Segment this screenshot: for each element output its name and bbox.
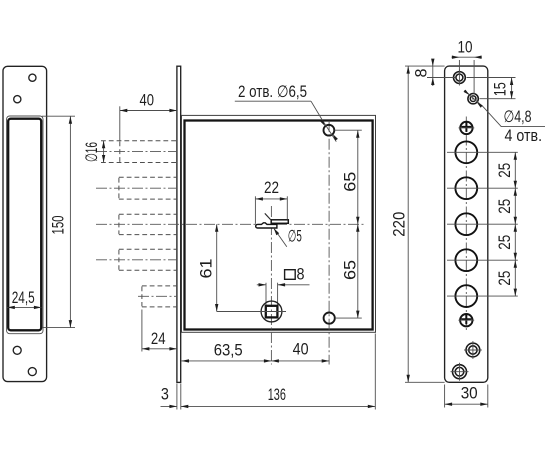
phillips screw bottom: [458, 314, 474, 326]
dimension 40 (bottom): [271, 341, 329, 363]
centerline hole 4: [96, 259, 177, 261]
vertical centerline of key holes: [328, 121, 330, 365]
phillips screw top: [459, 122, 475, 134]
strike plate screw hole top-right: [29, 74, 36, 81]
svg-text:15: 15: [491, 82, 509, 96]
dimension 15: [467, 78, 516, 99]
centerline large hole 4: [447, 259, 518, 261]
strike plate screw hole bottom-right: [28, 368, 36, 376]
lever spring tick: [265, 213, 271, 219]
large hole 4: [455, 249, 477, 271]
hidden hole 1 (top, phi16) dashed: [101, 141, 177, 163]
case hole bottom phi6.5: [324, 313, 335, 324]
svg-text:65: 65: [342, 172, 360, 192]
dimension square 8 arrows: [257, 283, 310, 306]
svg-text:61: 61: [198, 259, 216, 279]
spindle horizontal centerline: [258, 311, 287, 313]
hidden hole 2 dashed: [119, 177, 177, 199]
svg-text:24: 24: [151, 330, 166, 348]
large hole 2: [455, 177, 477, 199]
large hole 5: [455, 285, 477, 307]
svg-text:30: 30: [461, 385, 478, 403]
large hole 1: [455, 141, 477, 163]
washer hole bottom-mid: [464, 341, 482, 359]
svg-text:40: 40: [140, 91, 155, 109]
right faceplate outline (front view): [445, 66, 488, 382]
centerline large hole 3: [447, 223, 518, 225]
faceplate vertical centerline: [465, 117, 467, 332]
main horizontal centerline: [96, 223, 364, 225]
case hole top phi6.5: [324, 125, 335, 136]
latch lever upper bar: [271, 220, 288, 224]
centerline large hole 2: [447, 187, 518, 189]
centerline hole 2: [96, 187, 177, 189]
strike plate recess outer edge: [7, 116, 43, 334]
svg-text:220: 220: [391, 212, 409, 237]
dimension 30: [445, 385, 488, 408]
hidden hole 3 dashed: [119, 214, 177, 234]
svg-text:24,5: 24,5: [12, 289, 35, 307]
spindle square hole (thick): [266, 306, 278, 318]
centerline large hole 5: [447, 295, 518, 297]
spindle circle: [261, 301, 282, 322]
svg-text:∅5: ∅5: [288, 228, 302, 246]
dimension 24,5 (recess width): [7, 289, 41, 309]
latch lever lower bar: [256, 223, 277, 228]
dimension 22: [255, 179, 287, 224]
top washer hole: [454, 70, 466, 86]
dimension 150 (recess height): [42, 116, 75, 327]
svg-text:150: 150: [49, 216, 67, 235]
svg-text:25: 25: [496, 199, 514, 214]
extension lines strip bottom: [177, 334, 375, 410]
dimension 8: [405, 59, 455, 86]
dimension chain 25 x4: [496, 152, 517, 296]
strike plate screw hole bottom-left: [13, 346, 21, 354]
centerline large hole 1: [447, 151, 518, 153]
strike plate screw hole top-left: [14, 96, 21, 103]
dimension 220: [391, 66, 445, 382]
dimension 65 top + 65 bottom (chained): [335, 130, 362, 318]
centerline hole 1: [96, 151, 177, 153]
svg-text:63,5: 63,5: [214, 342, 243, 360]
label 2 otv. phi6,5 with leader: [235, 83, 338, 142]
strike plate recess inner thick edge: [8, 119, 41, 331]
svg-text:25: 25: [496, 163, 514, 178]
dimension 3 (faceplate thickness): [161, 386, 177, 409]
dimension phi16: [83, 141, 106, 163]
washer hole bottom: [451, 363, 469, 381]
centerline hole 5: [138, 295, 177, 297]
svg-text:4 отв.: 4 отв.: [505, 127, 543, 145]
lock faceplate strip (edge view): [177, 66, 181, 382]
svg-text:136: 136: [268, 386, 286, 404]
label phi5 with leader: [274, 228, 302, 247]
dimension 40 (hole depth, top): [120, 91, 177, 140]
lock body cover plate (thick): [185, 121, 373, 330]
dimension 10: [452, 39, 482, 95]
svg-text:40: 40: [293, 341, 309, 359]
dimension 24 (hole 5 depth): [142, 310, 177, 352]
dimension 136: [181, 386, 375, 408]
large hole 3: [455, 213, 477, 235]
strike plate outline (left view): [3, 66, 47, 381]
dimension 63,5: [182, 342, 272, 363]
lock body outer edge: [182, 115, 376, 332]
svg-text:∅16: ∅16: [83, 142, 101, 162]
hidden hole 5 dashed (shallow): [142, 286, 177, 307]
dimension 61: [198, 224, 261, 311]
svg-text:8: 8: [297, 266, 305, 284]
svg-text:10: 10: [458, 39, 473, 57]
svg-text:8: 8: [412, 69, 430, 78]
leader phi4,8 / 4 otv.: [464, 90, 546, 145]
hidden hole 4 dashed: [119, 249, 177, 270]
label square 8: [285, 266, 305, 284]
svg-text:25: 25: [496, 235, 514, 250]
svg-text:65: 65: [342, 260, 360, 280]
countersunk hole phi4,8: [468, 94, 478, 104]
vertical centerline of spindle: [270, 206, 272, 365]
svg-text:∅4,8: ∅4,8: [504, 108, 532, 126]
svg-text:25: 25: [496, 271, 514, 286]
svg-text:22: 22: [264, 179, 279, 197]
svg-text:2 отв. ∅6,5: 2 отв. ∅6,5: [238, 83, 307, 101]
svg-text:3: 3: [161, 386, 169, 404]
